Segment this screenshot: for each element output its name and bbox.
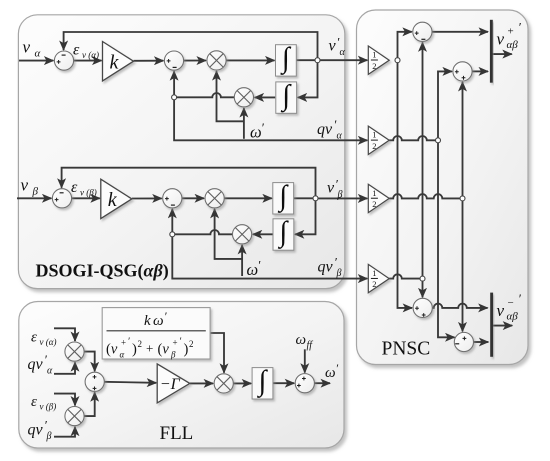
integrator I1a [276, 42, 297, 76]
wire node B down then qv'b output to PNSC T4 [172, 237, 367, 279]
svg-text:qv: qv [318, 259, 334, 276]
svg-text:ω: ω [296, 332, 307, 348]
svg-text:β: β [337, 190, 343, 201]
DSOGI-QSG block enclosure [18, 15, 344, 289]
label v_ab-' [497, 291, 522, 323]
svg-text:(v: (v [158, 342, 170, 358]
label v_alpha [23, 38, 41, 60]
wire qv'a into M3 bottom [54, 362, 75, 374]
wire bus3 qv'a up into S6 plus input [438, 71, 452, 137]
svg-text:FLL: FLL [160, 423, 194, 444]
label qv'beta FLL [28, 418, 52, 443]
svg-text:v: v [497, 301, 505, 320]
svg-text:′: ′ [258, 258, 261, 273]
label omega' output [325, 361, 339, 381]
node bus2 junction [420, 276, 425, 281]
wire M4 output into S3 bottom [84, 392, 95, 416]
wire node A up into S2a minus input [173, 71, 175, 95]
svg-text:k: k [110, 52, 120, 74]
summing junction S8 [454, 332, 473, 351]
FLL caption [160, 423, 194, 444]
svg-text:ε: ε [31, 330, 37, 346]
wire M3 output into S3 top [84, 352, 95, 372]
svg-text:v: v [23, 38, 31, 57]
label qv'beta [318, 255, 342, 280]
svg-text:ω: ω [250, 123, 262, 142]
wire bus4 v'b up into S6 bottom input [462, 82, 464, 196]
node A junction [172, 95, 177, 100]
wire T4 output to node bus2 (hop over bus1) [389, 274, 420, 278]
gain-normalization box k w'/((v_a+')^2+(v_b+')^2) [102, 308, 210, 360]
label omega_ff [296, 332, 314, 351]
multiplier M1a [207, 51, 226, 70]
svg-text:qv: qv [28, 422, 44, 439]
wire node v'a down into I2a right side [298, 62, 318, 97]
wire node B up into S2b minus input [171, 209, 173, 232]
svg-text:v (α): v (α) [40, 337, 57, 347]
gain T3 one-half [368, 184, 389, 212]
summing junction S5 [413, 22, 432, 41]
summing junction S2b [163, 189, 182, 208]
wire omega' branch to M1a [217, 71, 244, 121]
wire v'b output to PNSC T3 [318, 197, 367, 199]
wire qv'b into M4 bottom [54, 427, 75, 437]
node v'a junction [315, 58, 320, 63]
multiplier M2a [234, 88, 253, 107]
svg-text:v: v [327, 180, 335, 197]
svg-text:′: ′ [336, 361, 339, 375]
svg-text:′: ′ [518, 291, 521, 306]
svg-text:′: ′ [518, 20, 521, 35]
integrator I2a [276, 79, 297, 113]
integrator I3 [252, 365, 273, 399]
wire M1a to integrator I1a [226, 59, 274, 61]
wire bus4 v'b down into S8 top input [462, 201, 464, 332]
wire I3 to S4 [273, 382, 294, 384]
wire bus1 v'a down into S7 plus input [398, 63, 413, 308]
wire T3 output to node bus4 (hops over bus1 bus2 bus3) [389, 194, 462, 198]
summing junction S4 [295, 374, 314, 393]
wire bus2 qv'b up into S5 minus input [422, 42, 424, 276]
gain -Gamma [157, 364, 190, 403]
DSOGI-QSG(ab) caption [36, 261, 169, 282]
svg-text:ε: ε [71, 179, 78, 196]
label omega' beta [247, 258, 261, 280]
wire T2 output to node bus3 (hops over bus1 and bus2) [389, 136, 438, 140]
svg-text:v: v [21, 176, 29, 195]
wire S1a to gain k [74, 60, 102, 62]
svg-text:β: β [336, 268, 342, 279]
wire node v'b down into I2b right side [295, 201, 316, 235]
label qv'alpha [317, 117, 343, 142]
wire I2a to multiplier M2a [255, 96, 276, 98]
svg-text:+: + [508, 26, 514, 38]
svg-text:+: + [173, 338, 178, 348]
wire S2a to multiplier M1a [184, 60, 206, 62]
integrator I1b [273, 180, 294, 214]
svg-text:α: α [120, 350, 125, 360]
wire bus2 qv'b down into S7 top input [422, 281, 424, 297]
svg-text:v: v [497, 30, 505, 49]
wire I2b to multiplier M2b [253, 233, 273, 235]
PNSC caption [382, 339, 431, 360]
wire gain-normalization box output down into M5 top [210, 333, 224, 373]
svg-text:′: ′ [261, 120, 264, 135]
svg-text:−Γ: −Γ [160, 376, 181, 393]
gain T2 one-half [368, 126, 389, 154]
wire v'b feedback to S1b [62, 168, 316, 196]
svg-text:(v: (v [106, 342, 118, 358]
FLL block enclosure [19, 302, 344, 449]
wire S3 to gain -Gamma [104, 382, 156, 383]
label v_ab+' [497, 20, 522, 52]
svg-text:ω: ω [325, 365, 336, 381]
multiplier M1b [205, 189, 224, 208]
wire S2b to multiplier M1b [182, 197, 204, 199]
wire v_ab- output arrow [493, 325, 512, 327]
wire I1a to node v'a [296, 59, 317, 61]
wire S4 omega' output [314, 382, 330, 384]
wire omega' stub up into M2b [241, 245, 243, 276]
node v'b junction [313, 196, 318, 201]
wire M2a output to node A (hop over M1a omega line) [174, 93, 234, 97]
wire -Gamma to M5 [190, 382, 213, 384]
minus sequence summing bar [490, 293, 493, 357]
svg-text:k: k [144, 313, 151, 329]
svg-text:β: β [170, 350, 176, 360]
label v_beta [21, 176, 39, 198]
svg-text:ε: ε [73, 42, 80, 59]
multiplier M3 [65, 342, 84, 361]
svg-text:PNSC: PNSC [382, 339, 431, 360]
PNSC block enclosure [357, 10, 529, 365]
wire v_beta input [17, 197, 51, 199]
svg-text:+: + [121, 338, 126, 348]
multiplier M2b [233, 225, 252, 244]
node bus3 junction [436, 138, 441, 143]
wire S1b to gain k beta [72, 197, 100, 199]
svg-text:DSOGI-QSG(αβ): DSOGI-QSG(αβ) [36, 261, 169, 282]
wire I1b to node v'b [294, 197, 316, 199]
svg-text:+: + [146, 341, 153, 356]
svg-text:ε: ε [31, 394, 37, 410]
multiplier M4 [65, 407, 84, 426]
svg-text:α: α [337, 131, 343, 142]
svg-text:αβ: αβ [507, 311, 519, 323]
svg-text:ω: ω [247, 260, 259, 279]
summing junction S1a [54, 51, 73, 70]
summing junction S1b [52, 189, 71, 208]
wire v'a output to PNSC T1 [320, 59, 367, 61]
svg-text:qv: qv [28, 356, 44, 373]
wire eps_v(a) into M3 top [54, 328, 75, 341]
svg-text:v (β): v (β) [80, 188, 97, 198]
wire v_ab+ output arrow [493, 53, 512, 55]
plus sequence summing bar [490, 20, 493, 83]
wire M5 to I3 [233, 382, 251, 384]
wire v'a feedback to S1a [64, 32, 318, 58]
integrator I2b [273, 216, 294, 250]
wire M2b output to node B (hop over M1b omega line) [172, 230, 232, 234]
label eps_v(alpha) [73, 42, 99, 61]
gain k alpha [103, 42, 134, 81]
wire bus1 v'a up into S5 plus input [398, 32, 412, 58]
svg-text:αβ: αβ [507, 39, 519, 51]
wire omega_ff down into S4 top [304, 349, 306, 372]
svg-text:β: β [32, 186, 39, 198]
label eps_v(beta) [71, 179, 97, 198]
wire S8 output to minus bar [474, 341, 489, 343]
wire gain k to S2a [134, 60, 164, 62]
label omega' alpha [250, 120, 264, 142]
summing junction S3 [85, 372, 104, 391]
svg-text:α: α [340, 47, 346, 58]
svg-text:α: α [35, 48, 41, 60]
svg-text:qv: qv [317, 121, 333, 138]
svg-text:k: k [108, 189, 118, 211]
label v'beta [327, 177, 343, 201]
label qv'alpha FLL [28, 352, 54, 377]
wire v_alpha input [19, 60, 53, 62]
wire S6 output to plus bar [472, 70, 488, 72]
summing junction S6 [453, 62, 472, 81]
wire omega' branch to M1b [215, 209, 243, 259]
multiplier M5 [214, 374, 233, 393]
wire bus3 qv'a down into S8 minus input [438, 143, 455, 338]
wire S7 output to minus bar (hops over bus3 and bus4) [432, 304, 487, 308]
svg-text:): ) [132, 342, 137, 358]
svg-text:′: ′ [164, 309, 167, 323]
wire omega' stub up into M2a [243, 108, 245, 139]
label eps_v(alpha) FLL [31, 330, 56, 348]
wire gain k beta to S2b [132, 197, 162, 199]
svg-text:): ) [184, 342, 189, 358]
svg-text:v (α): v (α) [82, 50, 99, 60]
label v'alpha [329, 35, 346, 59]
wire eps_v(b) into M4 top [54, 394, 75, 406]
wire S5 output to plus bar [432, 31, 488, 33]
node B junction [170, 232, 175, 237]
summing junction S7 [413, 298, 432, 317]
wire node A down then qv'a output to PNSC T2 [174, 100, 367, 141]
svg-text:ω: ω [153, 313, 164, 329]
gain T4 one-half [368, 264, 389, 292]
svg-text:v (β): v (β) [40, 402, 57, 412]
gain T1 one-half [368, 46, 389, 74]
node bus1 junction [395, 58, 400, 63]
summing junction S2a [164, 51, 183, 70]
svg-text:2: 2 [189, 339, 194, 349]
label eps_v(beta) FLL [31, 394, 56, 412]
svg-text:α: α [47, 366, 53, 377]
gain k beta [101, 179, 132, 218]
svg-text:v: v [329, 38, 337, 55]
node bus4 junction [460, 196, 465, 201]
wire M1b to integrator I1b [224, 197, 272, 199]
svg-text:2: 2 [138, 339, 143, 349]
svg-text:−: − [508, 297, 514, 309]
svg-text:β: β [46, 431, 52, 442]
